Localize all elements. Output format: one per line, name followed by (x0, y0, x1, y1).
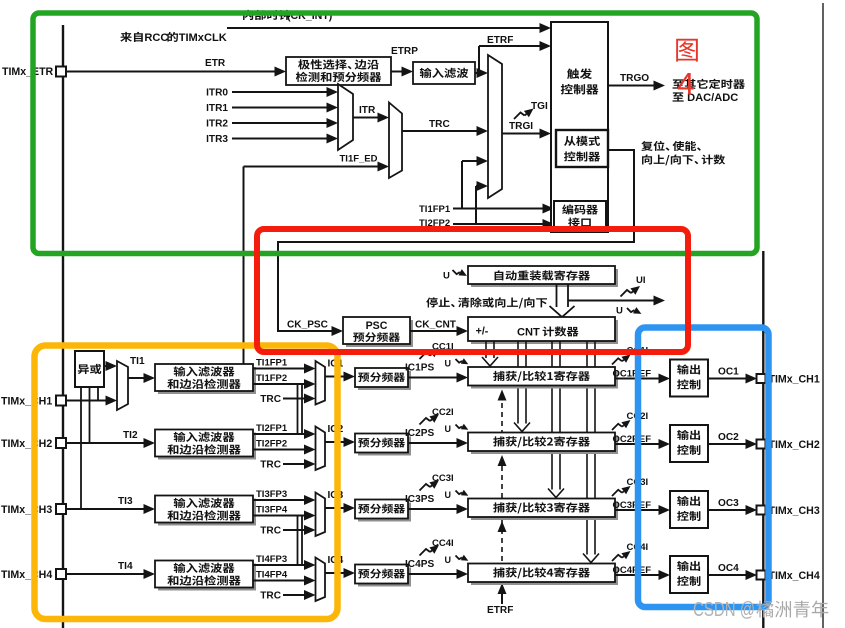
label: 预分频器 1 (358, 372, 405, 382)
arrow: capture into register 1 (498, 390, 507, 401)
mux: ITR selector (338, 84, 353, 150)
wire: ETRF into capture/compare 4 (501, 586, 503, 604)
svg-text:OC3: OC3 (718, 498, 739, 509)
box: 从模式控制器 (556, 130, 608, 167)
label: CC2I left (420, 418, 431, 425)
label: input filter 3 text (174, 498, 235, 508)
label: 捕获/比较4寄存器 (493, 567, 590, 578)
svg-text:TRC: TRC (260, 394, 281, 405)
svg-text:TI1FP1: TI1FP1 (256, 358, 288, 369)
box: 异或 (75, 351, 104, 387)
label: CC1I left (420, 353, 431, 360)
svg-text:ITR3: ITR3 (206, 134, 228, 145)
wire: CNT to capture/compare 4 hollow arrow (586, 341, 588, 555)
svg-text:U: U (443, 271, 450, 282)
label: 异或 (78, 364, 102, 374)
wire: slave mode controller to PSC clock path (278, 150, 634, 331)
wire: XOR output to TI1 mux (104, 365, 108, 367)
mux: IC2 selector (316, 427, 326, 471)
svg-text:TI3: TI3 (118, 496, 133, 507)
svg-text:TIMx_CH2: TIMx_CH2 (1, 438, 52, 450)
pin: TIMx_CH2 pad right (757, 440, 766, 449)
svg-text:TIMx_CH4: TIMx_CH4 (1, 569, 52, 581)
annotation: green box (33, 13, 757, 254)
svg-text:U: U (445, 490, 452, 500)
svg-text:TRC: TRC (429, 119, 450, 130)
pin: TIMx_CH4 pad (56, 569, 66, 579)
label: polarity box text (298, 59, 379, 69)
box: 捕获/比较2寄存器 (471, 436, 618, 455)
svg-text:TI2: TI2 (123, 430, 138, 441)
mux: IC3 selector (316, 493, 326, 537)
svg-text:4: 4 (677, 66, 695, 102)
box: 捕获/比较3寄存器 (471, 502, 618, 521)
wire: left chip boundary rail (62, 25, 64, 628)
svg-text:U: U (445, 555, 452, 565)
label: 预分频器 2 (358, 438, 405, 448)
wire: CK_INT into trigger controller (227, 27, 542, 29)
svg-text:TI1FP1: TI1FP1 (419, 204, 451, 215)
box: 编码器接口 (554, 201, 606, 230)
label: 来自RCC的TIMxCLK (120, 32, 143, 42)
svg-text:OC4: OC4 (718, 563, 739, 574)
box: 预分频器 3 (358, 503, 411, 522)
svg-text:IC3PS: IC3PS (405, 494, 434, 505)
label: 编码器接口 (562, 204, 598, 214)
svg-text:TI1F_ED: TI1F_ED (340, 154, 378, 165)
pin: TIMx_CH3 pad right (757, 506, 766, 515)
svg-text:CSDN @: CSDN @ (693, 599, 755, 621)
wire: CNT to capture/compare 1 hollow arrow (485, 341, 487, 358)
svg-text:CK_PSC: CK_PSC (287, 320, 329, 331)
label: 停止、清除或向上/向下 (426, 297, 547, 308)
label: 输出控制 4 (677, 561, 700, 571)
label: CC3I left (420, 484, 431, 491)
svg-text:TRGO: TRGO (620, 73, 649, 84)
label: 内部时钟 (CK_INT) (243, 10, 290, 20)
svg-text:CC4I: CC4I (432, 538, 454, 549)
pin: TIMx_CH2 pad (56, 438, 66, 448)
pin: TIMx_CH4 pad right (757, 571, 766, 580)
pin: TIMx_ETR pad (56, 67, 66, 77)
wire: TI1F_ED into TRC mux (243, 167, 245, 365)
label: 从模式控制器 (564, 136, 600, 146)
label: 捕获/比较1寄存器 (493, 371, 590, 382)
mux: IC4 selector (316, 558, 326, 602)
svg-text:TRC: TRC (260, 460, 281, 471)
svg-text:DAC/ADC: DAC/ADC (687, 92, 738, 104)
wire: TI3FP4/TI4FP3 cross-connect (297, 516, 299, 566)
svg-text:TGI: TGI (531, 101, 548, 112)
svg-text:TIMx_CH2: TIMx_CH2 (769, 439, 820, 451)
label: 至 DAC/ADC (673, 92, 684, 101)
svg-text:TI4FP3: TI4FP3 (256, 554, 287, 565)
label: 预分频器 4 (358, 569, 405, 579)
svg-text:CC3I: CC3I (432, 473, 454, 484)
label: CC1I right (612, 358, 622, 364)
mux: trigger input selector (488, 55, 502, 198)
svg-text:U: U (616, 306, 623, 317)
box: 输入滤波器和边沿检测器 3 (158, 499, 256, 526)
svg-text:TI4: TI4 (118, 561, 133, 572)
box: 输入滤波器和边沿检测器 1 (158, 367, 256, 394)
svg-text:RCC: RCC (144, 32, 168, 44)
label: CC4I left (420, 549, 431, 556)
svg-text:IC2PS: IC2PS (405, 428, 434, 439)
svg-text:TI2FP1: TI2FP1 (256, 423, 288, 434)
box: 自动重装载寄存器 (471, 269, 618, 287)
svg-text:+/-: +/- (476, 326, 489, 338)
label: 预分频器 3 (358, 504, 405, 514)
wire: ETRF branch to trigger controller and big mux (475, 72, 479, 74)
svg-text:CC2I: CC2I (432, 407, 454, 418)
label: 自动重装载寄存器 (495, 270, 590, 280)
box: 输入滤波 (413, 62, 475, 84)
svg-text:TIMx_CH3: TIMx_CH3 (769, 505, 820, 517)
pin: TIMx_CH3 pad (56, 504, 66, 514)
wire: update event out (568, 300, 656, 302)
mux: IC1 selector (316, 361, 326, 405)
svg-text:TI1: TI1 (130, 356, 145, 367)
arrow: capture into register 2 (498, 455, 507, 466)
wire: ARR to CNT hollow arrow (556, 284, 558, 307)
wire: CH1 into TI1 mux (66, 400, 108, 402)
label: UI event (621, 290, 632, 297)
svg-text:ETRF: ETRF (487, 35, 513, 46)
box: 触发控制器 (551, 22, 608, 232)
svg-text:ITR: ITR (359, 105, 376, 116)
svg-text:TRC: TRC (260, 591, 281, 602)
svg-text:TIMx_CH1: TIMx_CH1 (1, 396, 52, 408)
label: CC3I right (612, 490, 622, 496)
svg-text:ITR1: ITR1 (206, 103, 228, 114)
box: 捕获/比较4寄存器 (471, 567, 618, 586)
box: 输出控制 2 (670, 425, 708, 462)
svg-text:TRGI: TRGI (509, 121, 533, 132)
arrow: capture into register 3 (498, 521, 507, 532)
label: CC2I right (612, 424, 622, 430)
pin: TIMx_CH1 pad (56, 396, 66, 406)
svg-text:TRC: TRC (260, 526, 281, 537)
label: 触发控制器 (567, 68, 592, 79)
svg-text:IC1PS: IC1PS (405, 363, 434, 374)
label: 向上/向下、计数 (642, 154, 725, 165)
pin: TIMx_CH1 pad right (757, 374, 766, 383)
annotation: yellow box (35, 346, 338, 620)
box: 输入滤波器和边沿检测器 2 (158, 433, 256, 460)
box: 捕获/比较1寄存器 (471, 370, 618, 389)
wire: CNT to capture/compare 3 hollow arrow (551, 341, 553, 490)
svg-text:CK_CNT: CK_CNT (415, 320, 457, 331)
wire: figure right border (822, 3, 824, 628)
wire: TI1FP2/TI2FP1 cross-connect (297, 384, 299, 434)
svg-text:TI1FP2: TI1FP2 (256, 373, 287, 384)
box: CNT 计数器 (471, 320, 618, 344)
svg-text:TI4FP4: TI4FP4 (256, 570, 288, 581)
box: 预分频器 4 (358, 568, 411, 587)
svg-text:OC1: OC1 (718, 367, 739, 378)
svg-text:TI2FP2: TI2FP2 (256, 439, 287, 450)
label: input filter 4 text (174, 563, 235, 573)
box: 输入滤波器和边沿检测器 4 (158, 564, 256, 591)
label: input filter 1 text (174, 366, 235, 376)
annotation: blue box (638, 328, 769, 608)
wire: CNT to capture/compare 2 hollow arrow (517, 341, 519, 424)
mux: TI1 xor selector (117, 361, 128, 410)
label: 图 red (676, 39, 698, 62)
svg-text:ETR: ETR (205, 58, 226, 69)
svg-text:PSC: PSC (366, 320, 388, 332)
svg-text:U: U (445, 359, 452, 369)
svg-text:CNT: CNT (517, 327, 540, 339)
svg-text:TIMx_ETR: TIMx_ETR (2, 66, 54, 78)
box: PSC 预分频器 (346, 320, 413, 347)
svg-text:IC4PS: IC4PS (405, 559, 434, 570)
svg-text:TIMx_CH1: TIMx_CH1 (769, 374, 820, 386)
svg-text:ITR2: ITR2 (206, 119, 228, 130)
label: 输出控制 2 (677, 430, 700, 440)
label: 输入滤波 (420, 68, 469, 78)
label: 输出控制 3 (677, 496, 700, 506)
svg-text:ETRF: ETRF (487, 605, 513, 616)
svg-text:ITR0: ITR0 (206, 88, 228, 99)
box: 输出控制 4 (670, 556, 708, 593)
label: 输出控制 1 (677, 364, 700, 374)
label: 捕获/比较3寄存器 (493, 502, 590, 513)
wire: dashed capture trigger line (501, 394, 503, 600)
label: 至其它定时器 (673, 79, 745, 89)
box: 输出控制 1 (670, 360, 708, 397)
svg-text:OC2: OC2 (718, 432, 739, 443)
svg-text:U: U (445, 424, 452, 434)
wire: right chip boundary rail (762, 251, 764, 628)
svg-text:TI3FP4: TI3FP4 (256, 505, 288, 516)
wire: XOR input taps from CH1 CH2 CH3 (97, 387, 99, 401)
label: input filter 2 text (174, 432, 235, 442)
mux: TRC selector (389, 103, 402, 179)
svg-text:TIMx_CH4: TIMx_CH4 (769, 570, 820, 582)
svg-text:TIMx_CH3: TIMx_CH3 (1, 504, 52, 516)
label: CC4I right (612, 555, 622, 561)
box: 预分频器 2 (358, 437, 411, 456)
annotation: red box (257, 229, 688, 352)
svg-text:TIMxCLK: TIMxCLK (179, 32, 227, 44)
box: 输出控制 3 (670, 491, 708, 528)
box: 预分频器 1 (358, 371, 411, 390)
box: 极性选择、边沿检测和预分频器 (286, 57, 391, 85)
label: 复位、使能、 (641, 141, 701, 151)
svg-text:UI: UI (636, 275, 646, 286)
svg-text:TI3FP3: TI3FP3 (256, 489, 287, 500)
label: 捕获/比较2寄存器 (493, 436, 590, 447)
svg-text:ETRP: ETRP (391, 46, 418, 57)
